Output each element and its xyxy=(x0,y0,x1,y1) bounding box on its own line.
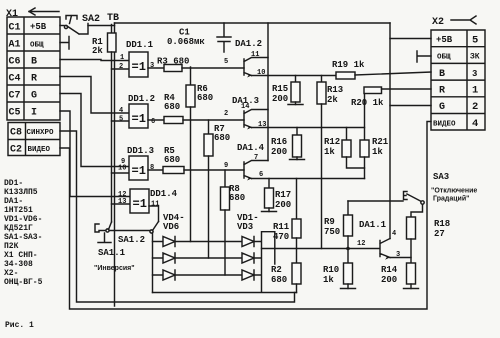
svg-text:+5В: +5В xyxy=(30,22,47,32)
svg-text:8: 8 xyxy=(150,164,154,172)
wire R4 to DA1.3 base xyxy=(183,119,244,121)
svg-text:R10: R10 xyxy=(323,265,339,275)
svg-text:680: 680 xyxy=(271,275,287,285)
svg-text:1k: 1k xyxy=(324,147,335,157)
svg-text:ОБЩ: ОБЩ xyxy=(30,42,44,50)
resistor R6 xyxy=(190,67,192,85)
svg-text:R11: R11 xyxy=(273,222,290,232)
wire SA1.2 to diode bus xyxy=(152,233,154,293)
resistor R18 xyxy=(407,217,416,239)
connector X1 body xyxy=(7,17,60,120)
resistor R9 xyxy=(347,201,349,215)
wire B row to DD1.1 pin1 xyxy=(60,60,129,61)
resistor R17 xyxy=(268,179,270,189)
figure caption xyxy=(5,321,34,330)
svg-text:3: 3 xyxy=(150,62,154,70)
svg-text:C4: C4 xyxy=(9,74,21,85)
resistor R16 xyxy=(296,128,298,136)
resistor R13 xyxy=(321,76,323,83)
ground under R17 xyxy=(262,211,277,213)
ground under R15 xyxy=(288,104,303,106)
svg-text:SA3: SA3 xyxy=(433,172,449,182)
switch SA1.1 xyxy=(95,224,150,232)
diode VD1 xyxy=(242,237,254,247)
svg-text:2k: 2k xyxy=(92,46,103,56)
svg-text:680: 680 xyxy=(229,193,245,203)
wire I row to DD1.4 pin12 xyxy=(60,111,130,197)
wire DD1.3 out xyxy=(148,169,163,171)
svg-text:КД521Г: КД521Г xyxy=(4,224,33,233)
svg-text:ОБЩ: ОБЩ xyxy=(437,54,451,62)
svg-text:C8: C8 xyxy=(10,128,22,139)
collector column to rail xyxy=(389,23,391,239)
svg-text:R3 680: R3 680 xyxy=(157,57,189,67)
label VD1-VD3 xyxy=(237,213,259,232)
svg-text:G: G xyxy=(439,102,445,113)
svg-text:680: 680 xyxy=(197,93,213,103)
wire SA2 to rail xyxy=(88,25,115,27)
svg-text:ЗК: ЗК xyxy=(470,53,480,62)
svg-text:В: В xyxy=(31,57,37,68)
svg-text:0.068мк: 0.068мк xyxy=(167,37,205,47)
svg-text:1k: 1k xyxy=(323,275,334,285)
resistor R1 xyxy=(111,25,113,34)
svg-text:DA1-: DA1- xyxy=(4,197,23,206)
svg-text:27: 27 xyxy=(434,229,445,239)
svg-text:VD6: VD6 xyxy=(163,222,179,232)
X2 arrow xyxy=(451,16,476,24)
wire G row to DD1.3 pin9 xyxy=(60,94,129,167)
svg-text:13: 13 xyxy=(118,198,126,206)
svg-text:6: 6 xyxy=(151,118,155,126)
svg-text:34-308: 34-308 xyxy=(4,260,33,269)
svg-text:470: 470 xyxy=(273,232,289,242)
resistor R5 xyxy=(163,167,184,174)
resistor R21 xyxy=(364,93,366,140)
svg-text:ОНЦ-ВГ-5: ОНЦ-ВГ-5 xyxy=(4,278,43,287)
wire R1 to SA1.1 xyxy=(111,52,113,222)
svg-text:Градаций": Градаций" xyxy=(433,195,469,203)
connector X2 body xyxy=(431,30,485,130)
svg-text:"Отключение: "Отключение xyxy=(431,188,477,195)
transistor DA1.2 xyxy=(224,39,265,77)
svg-text:C5: C5 xyxy=(9,108,21,119)
gate DD1.1 xyxy=(129,52,148,77)
transistor DA1.4 xyxy=(224,143,265,179)
X1 cell texts xyxy=(9,22,55,156)
terminal X1 OBSh xyxy=(60,37,69,50)
svg-text:9: 9 xyxy=(224,162,228,170)
svg-text:SA1.2: SA1.2 xyxy=(118,235,145,245)
svg-text:2: 2 xyxy=(119,63,123,71)
svg-text:R20 1k: R20 1k xyxy=(351,98,384,108)
diode matrix wires xyxy=(153,232,297,293)
switch SA1.2 xyxy=(150,230,153,233)
junction node xyxy=(346,247,350,251)
ground under R16 xyxy=(290,159,305,161)
svg-text:+5В: +5В xyxy=(436,35,453,45)
wire SINHRO row along bottom xyxy=(60,131,295,302)
ground under R14 xyxy=(404,288,419,290)
svg-text:X1: X1 xyxy=(6,9,18,20)
resistor R12 xyxy=(346,128,348,141)
diode VD6 xyxy=(163,270,175,280)
enclosure left border xyxy=(114,23,116,306)
svg-text:X2: X2 xyxy=(432,17,444,28)
wire to DD1.4 pin13 xyxy=(112,203,131,205)
svg-text:DA1.2: DA1.2 xyxy=(235,39,262,49)
resistor R7 xyxy=(208,120,210,134)
svg-text:R14: R14 xyxy=(381,265,398,275)
ground under R10 xyxy=(341,288,356,290)
transistor DA1.1 xyxy=(357,220,400,259)
svg-text:R: R xyxy=(439,86,445,97)
svg-text:=1: =1 xyxy=(132,112,146,126)
svg-text:R16: R16 xyxy=(271,137,287,147)
svg-text:"Инверсия": "Инверсия" xyxy=(94,265,135,272)
connector X2 label xyxy=(432,17,444,28)
svg-text:DA1.4: DA1.4 xyxy=(237,143,265,153)
resistor R10 xyxy=(347,249,349,264)
gate DD1.2 xyxy=(129,104,148,128)
svg-text:C2: C2 xyxy=(10,145,22,156)
resistor R3 xyxy=(164,65,182,72)
svg-text:К133ЛП5: К133ЛП5 xyxy=(4,188,38,197)
wire emitter to R14 xyxy=(390,257,411,259)
enclosure top rail xyxy=(115,22,391,24)
svg-text:R12: R12 xyxy=(324,137,340,147)
svg-text:200: 200 xyxy=(271,147,287,157)
svg-text:I: I xyxy=(31,108,37,119)
resistor R14 xyxy=(407,263,416,284)
resistor R20 xyxy=(364,87,382,94)
diode VD2 xyxy=(242,253,254,263)
svg-text:DD1.2: DD1.2 xyxy=(128,94,155,104)
connector X1 label xyxy=(6,9,18,20)
diode VD3 xyxy=(242,270,254,280)
svg-text:10: 10 xyxy=(118,165,126,173)
resistor R19 xyxy=(336,72,355,79)
diode VD5 xyxy=(163,253,175,263)
svg-text:750: 750 xyxy=(324,227,340,237)
wire VIDEO row along bottom to X2 xyxy=(60,122,431,310)
svg-text:SA1-SA3-: SA1-SA3- xyxy=(4,233,42,242)
svg-text:R17: R17 xyxy=(275,190,291,200)
wire R5 to DA1.4 base xyxy=(184,169,244,171)
svg-text:200: 200 xyxy=(381,275,397,285)
svg-text:4: 4 xyxy=(392,230,396,238)
resistor R11 xyxy=(296,179,298,220)
transistor DA1.3 xyxy=(224,96,266,129)
wire to DD1.1 pin2 xyxy=(112,68,130,70)
svg-text:680: 680 xyxy=(214,133,230,143)
switch SA3 xyxy=(404,192,408,200)
wire +5V to X2 xyxy=(390,38,431,40)
gate DD1.3 xyxy=(129,156,148,180)
svg-text:R9: R9 xyxy=(324,217,335,227)
X1 arrow xyxy=(29,8,59,15)
wire R19 to X2 B xyxy=(355,72,431,75)
wire +5B row to SA2 xyxy=(60,25,64,27)
svg-text:1НТ251: 1НТ251 xyxy=(4,206,33,215)
wire DD1.4 out to SA1.2 xyxy=(149,206,159,222)
wire R row to DD1.2 pin4 xyxy=(60,77,129,114)
wire base line DA1.1 xyxy=(262,248,380,250)
svg-text:ВИДЕО: ВИДЕО xyxy=(433,121,456,129)
svg-text:5: 5 xyxy=(224,58,228,66)
svg-text:200: 200 xyxy=(275,200,291,210)
svg-text:A1: A1 xyxy=(9,40,21,51)
svg-text:C1: C1 xyxy=(179,28,190,38)
svg-text:DD1.4: DD1.4 xyxy=(150,189,178,199)
svg-text:X1 СНП-: X1 СНП- xyxy=(4,251,38,260)
svg-text:DD1-: DD1- xyxy=(4,179,23,188)
svg-text:ВИДЕО: ВИДЕО xyxy=(28,146,51,154)
svg-text:200: 200 xyxy=(272,94,288,104)
svg-text:R18: R18 xyxy=(434,219,450,229)
svg-text:C1: C1 xyxy=(9,23,21,34)
diode VD4 xyxy=(163,237,175,247)
wire to DD1.3 pin10 xyxy=(112,172,130,174)
wire R20 to X2 R xyxy=(382,88,432,90)
label VD4-VD6 xyxy=(163,213,185,232)
svg-text:DD1.3: DD1.3 xyxy=(127,146,154,156)
wire DD1.2 out xyxy=(148,119,164,121)
svg-text:=1: =1 xyxy=(132,164,146,178)
svg-text:1: 1 xyxy=(472,85,478,97)
svg-text:СИНХРО: СИНХРО xyxy=(27,129,55,137)
gate DD1.4 xyxy=(130,189,149,213)
svg-text:R19 1k: R19 1k xyxy=(332,60,365,70)
svg-text:5: 5 xyxy=(472,35,478,47)
svg-text:680: 680 xyxy=(164,155,180,165)
connector X1 lower cells xyxy=(8,123,60,156)
terminal X2 OBSh xyxy=(417,51,431,62)
wire R3 to DA1.2 base xyxy=(182,67,244,69)
svg-text:2: 2 xyxy=(472,101,478,113)
resistor R2 xyxy=(296,249,298,264)
resistor R15 xyxy=(295,76,297,83)
resistor R4 xyxy=(164,117,183,124)
svg-text:3: 3 xyxy=(472,69,477,79)
svg-text:R13: R13 xyxy=(327,85,343,95)
svg-text:1k: 1k xyxy=(372,147,383,157)
wire DA1.3 emitter xyxy=(252,127,365,129)
svg-text:C7: C7 xyxy=(9,91,21,102)
svg-text:2: 2 xyxy=(224,110,228,118)
wire R9 top to SA3 xyxy=(348,200,403,202)
svg-text:R21: R21 xyxy=(372,137,389,147)
wire DA1.4 emitter xyxy=(252,178,365,180)
svg-text:12: 12 xyxy=(357,240,365,248)
svg-text:=1: =1 xyxy=(132,60,146,74)
svg-text:5: 5 xyxy=(119,116,123,124)
svg-text:1: 1 xyxy=(120,54,124,62)
svg-text:SA2: SA2 xyxy=(82,14,100,25)
wire DD1.1 out xyxy=(148,67,164,69)
switch SA2 xyxy=(64,25,67,28)
svg-text:R15: R15 xyxy=(272,84,288,94)
svg-text:X2-: X2- xyxy=(4,269,18,278)
svg-text:R2: R2 xyxy=(271,265,282,275)
svg-text:4: 4 xyxy=(119,107,123,115)
svg-text:SA1.1: SA1.1 xyxy=(98,248,126,258)
parts list text xyxy=(4,179,43,287)
svg-text:G: G xyxy=(31,91,37,102)
svg-text:R: R xyxy=(31,74,37,85)
svg-text:2k: 2k xyxy=(327,95,338,105)
wire to DD1.2 pin5 xyxy=(112,120,130,122)
svg-text:Рис. 1: Рис. 1 xyxy=(5,321,34,330)
svg-text:14: 14 xyxy=(241,103,249,111)
wire G to X2 xyxy=(390,105,431,107)
svg-text:4: 4 xyxy=(472,118,478,130)
wire DA1.2 emitter xyxy=(252,75,337,77)
svg-text:VD3: VD3 xyxy=(237,222,253,232)
svg-text:=1: =1 xyxy=(133,197,147,211)
svg-text:В: В xyxy=(439,69,445,80)
+5V collector column xyxy=(267,23,269,161)
svg-text:П2К: П2К xyxy=(4,242,19,251)
svg-text:DA1.1: DA1.1 xyxy=(359,220,387,230)
svg-text:VD1-VD6-: VD1-VD6- xyxy=(4,215,42,224)
svg-text:DD1.1: DD1.1 xyxy=(126,40,154,50)
capacitor C1 xyxy=(217,23,231,52)
resistor R8 xyxy=(224,170,226,187)
svg-text:680: 680 xyxy=(164,102,180,112)
svg-text:C6: C6 xyxy=(9,57,21,68)
